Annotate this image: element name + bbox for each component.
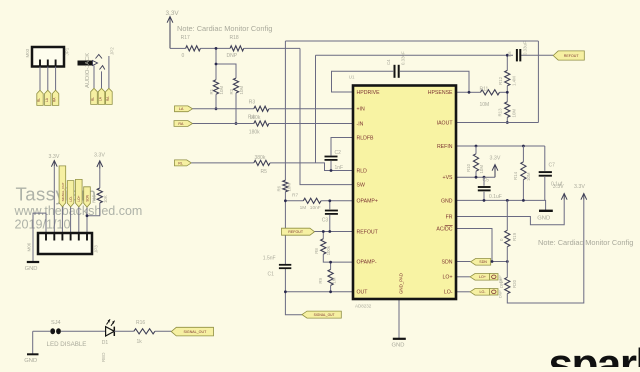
svg-text:SW: SW [357, 183, 365, 189]
svg-text:3.3V: 3.3V [574, 184, 585, 190]
svg-text:LO+: LO+ [443, 275, 453, 281]
svg-text:DNP: DNP [499, 275, 503, 283]
svg-text:R11: R11 [480, 87, 489, 93]
svg-text:SIGNAL_OUT: SIGNAL_OUT [184, 330, 208, 334]
svg-text:RL: RL [37, 98, 41, 102]
svg-text:10M: 10M [480, 102, 490, 108]
svg-text:+IN: +IN [357, 107, 365, 113]
svg-text:REFOUT: REFOUT [288, 230, 304, 234]
svg-text:HPSENSE: HPSENSE [428, 90, 453, 96]
svg-text:GND_PAD: GND_PAD [399, 273, 404, 294]
svg-text:R14: R14 [513, 171, 518, 180]
svg-text:LA: LA [179, 107, 184, 111]
svg-text:180k: 180k [249, 129, 260, 135]
svg-text:JP1: JP1 [65, 47, 70, 55]
svg-text:R10: R10 [466, 163, 471, 172]
svg-text:HPDRIVE: HPDRIVE [357, 90, 381, 96]
svg-text:DNP: DNP [499, 290, 503, 298]
svg-text:C1: C1 [268, 272, 275, 278]
svg-text:R7: R7 [292, 193, 298, 199]
svg-text:U1: U1 [349, 74, 355, 79]
svg-text:+VS: +VS [443, 175, 453, 181]
svg-text:REFOUT: REFOUT [564, 54, 580, 58]
svg-text:D1: D1 [102, 340, 109, 346]
svg-text:Note: Cardiac Monitor Config: Note: Cardiac Monitor Config [177, 24, 272, 33]
svg-text:3.3V: 3.3V [94, 153, 105, 159]
svg-text:10M: 10M [239, 86, 244, 95]
svg-text:0.33uF: 0.33uF [401, 51, 406, 65]
svg-text:C6: C6 [507, 51, 512, 57]
svg-text:C2: C2 [335, 150, 342, 156]
svg-text:0.1uF: 0.1uF [489, 194, 502, 200]
svg-text:3.3V: 3.3V [166, 10, 180, 17]
svg-text:RA: RA [178, 122, 184, 126]
svg-text:SIGNAL_OUT: SIGNAL_OUT [314, 313, 335, 317]
svg-text:GND: GND [537, 215, 550, 221]
svg-text:-IN: -IN [357, 121, 364, 127]
svg-text:R16: R16 [136, 320, 145, 326]
svg-text:RLD: RLD [357, 168, 368, 174]
svg-text:LED DISABLE: LED DISABLE [47, 341, 87, 348]
svg-text:10M: 10M [479, 165, 484, 174]
svg-text:OPAMP+: OPAMP+ [357, 199, 378, 205]
svg-text:R12: R12 [498, 76, 503, 85]
svg-text:AC/DC: AC/DC [436, 226, 452, 232]
svg-text:SJ4: SJ4 [51, 320, 61, 326]
svg-text:10M: 10M [526, 172, 531, 181]
svg-text:380k: 380k [255, 155, 266, 161]
svg-text:C3: C3 [322, 217, 329, 223]
svg-text:FR: FR [446, 214, 453, 220]
svg-text:10M: 10M [219, 86, 224, 95]
svg-text:10M: 10M [512, 109, 517, 118]
svg-text:R4: R4 [248, 115, 255, 121]
svg-text:AD8232: AD8232 [355, 304, 372, 309]
svg-text:3.3V: 3.3V [490, 156, 501, 162]
svg-text:spark: spark [549, 340, 640, 367]
svg-text:DNP: DNP [227, 53, 238, 59]
svg-text:C4: C4 [386, 59, 391, 65]
svg-text:SDN: SDN [442, 259, 453, 265]
svg-text:RL: RL [91, 97, 95, 101]
svg-text:RL: RL [178, 161, 183, 165]
svg-text:3.3V: 3.3V [553, 184, 564, 190]
svg-text:10M: 10M [287, 183, 292, 192]
svg-text:JP2: JP2 [110, 47, 115, 55]
svg-text:R13: R13 [498, 108, 503, 117]
svg-text:Note: Cardiac Monitor Config: Note: Cardiac Monitor Config [538, 238, 633, 247]
svg-text:C5: C5 [483, 178, 490, 184]
svg-text:AUDIO-JACK: AUDIO-JACK [85, 53, 91, 88]
svg-text:SDN: SDN [85, 194, 89, 201]
svg-text:1M: 1M [300, 205, 307, 211]
svg-text:R17: R17 [181, 35, 190, 41]
svg-text:0: 0 [182, 53, 185, 59]
svg-text:LO-: LO- [69, 196, 73, 201]
svg-text:JP3: JP3 [94, 245, 99, 253]
svg-text:0.33uF: 0.33uF [523, 41, 528, 55]
svg-text:OPAMP-: OPAMP- [357, 260, 377, 266]
svg-text:R9: R9 [318, 277, 323, 283]
svg-text:1.5nF: 1.5nF [263, 256, 276, 262]
svg-text:1M: 1M [331, 277, 336, 283]
svg-text:RLDFB: RLDFB [357, 135, 375, 141]
svg-text:R19: R19 [512, 232, 517, 241]
svg-text:3.3V: 3.3V [49, 154, 60, 160]
svg-text:1k: 1k [137, 339, 143, 345]
svg-text:REFIN: REFIN [437, 144, 453, 150]
svg-text:GND: GND [441, 198, 453, 204]
svg-text:LO+: LO+ [479, 275, 486, 279]
svg-text:R2: R2 [229, 88, 234, 94]
svg-text:R18: R18 [230, 35, 239, 41]
svg-text:100k: 100k [326, 245, 331, 255]
svg-text:IAOUT: IAOUT [437, 120, 454, 126]
svg-text:SIGNAL_OUT: SIGNAL_OUT [61, 182, 65, 201]
svg-text:REFOUT: REFOUT [357, 229, 379, 235]
svg-text:R20: R20 [512, 279, 517, 288]
svg-text:R5: R5 [261, 169, 268, 175]
svg-text:GND: GND [24, 358, 37, 364]
svg-text:R1: R1 [209, 88, 214, 94]
svg-text:LO-: LO- [480, 290, 487, 294]
svg-text:R8: R8 [314, 248, 319, 254]
svg-text:10K: 10K [103, 195, 108, 203]
svg-text:GND: GND [392, 343, 405, 349]
svg-text:10nF: 10nF [310, 205, 321, 211]
svg-text:RED: RED [101, 352, 106, 362]
svg-text:R3: R3 [249, 100, 256, 106]
svg-text:GND: GND [25, 266, 38, 272]
svg-text:SDN: SDN [479, 260, 487, 264]
svg-text:M06: M06 [27, 242, 32, 251]
svg-text:R6: R6 [277, 185, 282, 191]
svg-text:OUT: OUT [357, 290, 369, 296]
svg-text:R15: R15 [92, 194, 97, 203]
svg-text:1.4M: 1.4M [512, 76, 517, 86]
svg-text:C7: C7 [549, 163, 556, 169]
svg-text:LO+: LO+ [77, 195, 81, 201]
svg-text:M03: M03 [25, 48, 30, 57]
svg-text:LO-: LO- [444, 290, 453, 296]
svg-text:1nF: 1nF [335, 165, 344, 171]
